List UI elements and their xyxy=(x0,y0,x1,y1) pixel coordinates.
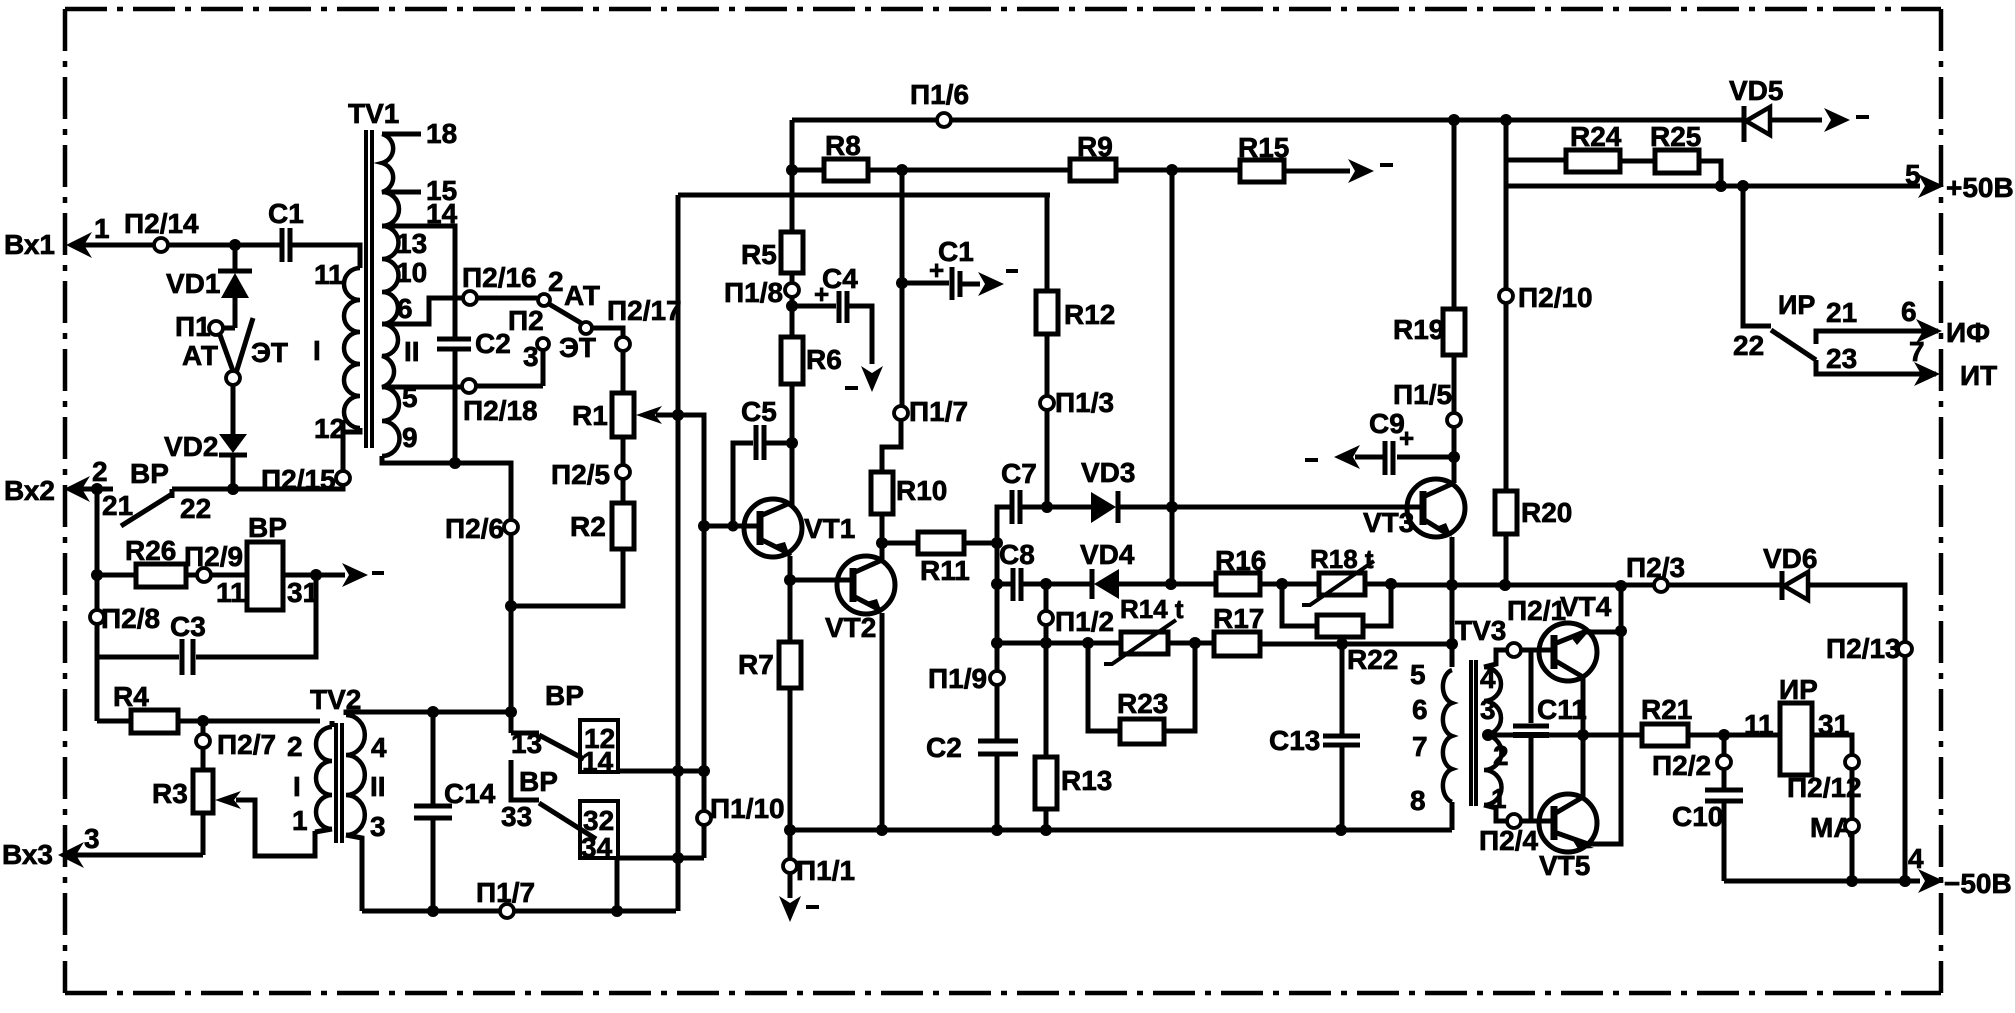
svg-text:3: 3 xyxy=(370,811,386,842)
svg-text:П1/1: П1/1 xyxy=(796,855,855,886)
svg-text:П1/6: П1/6 xyxy=(910,79,969,110)
vertical R9 junction to VD4 line xyxy=(1170,170,1175,584)
transformer TV3 xyxy=(1410,615,1583,830)
svg-text:7: 7 xyxy=(1909,336,1925,367)
svg-text:R24: R24 xyxy=(1570,121,1622,152)
diode VD2 xyxy=(164,385,247,489)
node П1/9 xyxy=(928,663,1004,694)
output ИФ pin 6 xyxy=(1901,296,1990,348)
svg-text:VD3: VD3 xyxy=(1081,457,1135,488)
switch П2 АТ/ЭТ contacts 2-3 xyxy=(508,266,623,386)
svg-text:4: 4 xyxy=(371,732,387,763)
TV2 secondary winding II xyxy=(346,712,511,715)
svg-text:12: 12 xyxy=(314,413,345,444)
svg-text:21: 21 xyxy=(1826,297,1857,328)
TV1 secondary winding II pins 5-9 xyxy=(382,324,400,456)
node П2/1 xyxy=(1507,595,1566,657)
capacitor C1 (middle) with minus arrow xyxy=(902,236,1018,300)
svg-text:П2/10: П2/10 xyxy=(1518,282,1593,313)
svg-text:VD1: VD1 xyxy=(166,268,220,299)
resistor R13 xyxy=(1035,757,1112,830)
wire ВР coil to minus arrow xyxy=(283,563,384,587)
node П1/8 xyxy=(724,277,799,337)
node МА xyxy=(1810,812,1859,843)
svg-text:22: 22 xyxy=(1733,330,1764,361)
junction Bx2 vertical xyxy=(91,483,103,495)
diode VD3 xyxy=(1047,457,1420,523)
switch АТ/ЭТ arm xyxy=(182,318,288,385)
svg-text:П1/5: П1/5 xyxy=(1393,379,1452,410)
svg-text:14: 14 xyxy=(582,746,614,777)
svg-text:11: 11 xyxy=(1744,709,1774,740)
vertical R8 junction to П1/7 with C1 branch xyxy=(896,170,908,406)
node П1 xyxy=(175,311,223,342)
capacitor C9 with minus arrow xyxy=(1305,408,1460,475)
node П2/6 xyxy=(445,513,518,733)
svg-text:R26: R26 xyxy=(125,535,176,566)
long feedback vertical xyxy=(678,195,1050,911)
junction R26 line xyxy=(91,569,103,581)
svg-text:13: 13 xyxy=(396,228,427,259)
svg-text:R13: R13 xyxy=(1061,765,1112,796)
svg-text:П2/12: П2/12 xyxy=(1787,772,1862,803)
node П2/2 xyxy=(1652,735,1731,790)
transistor VT3 xyxy=(1363,479,1465,667)
svg-text:11: 11 xyxy=(314,259,344,290)
svg-text:33: 33 xyxy=(501,801,532,832)
svg-text:3: 3 xyxy=(1480,694,1496,725)
svg-text:7: 7 xyxy=(1412,731,1428,762)
node П2/9 xyxy=(184,541,247,582)
svg-text:VT2: VT2 xyxy=(825,612,876,643)
svg-text:I: I xyxy=(293,771,301,802)
junction R8/R9 xyxy=(896,164,908,176)
svg-text:П1/7: П1/7 xyxy=(909,396,968,427)
node П1/1 with minus arrow down xyxy=(779,855,855,922)
resistor R26 xyxy=(97,535,197,587)
svg-text:R4: R4 xyxy=(113,681,149,712)
node П2/18 xyxy=(462,379,543,426)
svg-text:9: 9 xyxy=(402,422,418,453)
TV2 core xyxy=(336,723,342,843)
node П2/13 xyxy=(1826,633,1912,664)
svg-text:C13: C13 xyxy=(1269,725,1320,756)
resistor R23 xyxy=(1088,643,1195,744)
svg-text:5: 5 xyxy=(1905,159,1921,190)
svg-text:ВР: ВР xyxy=(130,458,169,489)
capacitor C14 xyxy=(414,706,496,911)
svg-text:C3: C3 xyxy=(170,611,206,642)
svg-text:R6: R6 xyxy=(806,344,842,375)
svg-text:18: 18 xyxy=(426,118,457,149)
svg-text:4: 4 xyxy=(1908,843,1924,874)
svg-text:I: I xyxy=(313,335,321,366)
resistors R24 R25 xyxy=(1506,121,1721,186)
node П2/14 xyxy=(124,208,199,252)
svg-text:R19: R19 xyxy=(1393,314,1444,345)
svg-text:R25: R25 xyxy=(1650,121,1701,152)
svg-text:ВР: ВР xyxy=(545,680,584,711)
thermistor R14 xyxy=(997,594,1214,664)
relay coil ВР xyxy=(216,512,318,610)
rail −50В pin 4 xyxy=(1724,843,2012,899)
svg-text:6: 6 xyxy=(1901,296,1917,327)
svg-text:Вх1: Вх1 xyxy=(4,229,55,260)
transistor VT4 xyxy=(1539,591,1621,735)
svg-text:C2: C2 xyxy=(475,328,511,359)
diode VD6 xyxy=(1763,543,1905,881)
svg-text:R2: R2 xyxy=(570,511,606,542)
svg-text:5: 5 xyxy=(1410,659,1426,690)
svg-text:VT1: VT1 xyxy=(804,513,855,544)
node П2/10 and resistor R20 xyxy=(1495,120,1593,585)
svg-text:ЭТ: ЭТ xyxy=(251,337,288,368)
svg-text:АТ: АТ xyxy=(564,280,600,311)
switch ВР contacts 13-12-14 xyxy=(511,680,618,777)
capacitor C8 xyxy=(997,539,1052,601)
node П2/4 xyxy=(1479,814,1554,856)
svg-text:П2/4: П2/4 xyxy=(1479,825,1538,856)
svg-text:ИР: ИР xyxy=(1779,674,1818,705)
resistor R8 xyxy=(786,120,1070,232)
svg-text:C8: C8 xyxy=(999,539,1035,570)
node П1/7 and R10 xyxy=(871,396,968,543)
svg-text:ВР: ВР xyxy=(248,512,287,543)
svg-text:II: II xyxy=(404,336,420,367)
svg-text:2: 2 xyxy=(548,266,564,297)
svg-text:C5: C5 xyxy=(741,396,777,427)
svg-text:VD2: VD2 xyxy=(164,431,218,462)
svg-text:П2/2: П2/2 xyxy=(1652,750,1711,781)
junction VT1 emitter / VT2 base xyxy=(784,574,796,586)
node П1/3 xyxy=(1040,387,1114,507)
left vertical Bx2 branch xyxy=(95,489,100,721)
potentiometer R1 xyxy=(572,393,704,858)
capacitor C7 xyxy=(997,458,1053,741)
svg-text:34: 34 xyxy=(581,832,613,863)
svg-text:VD4: VD4 xyxy=(1080,539,1135,570)
svg-text:ЭТ: ЭТ xyxy=(559,332,596,363)
svg-text:П2/18: П2/18 xyxy=(463,395,538,426)
TV3 secondary winding pins 4-3-2-1 xyxy=(1484,667,1502,805)
svg-text:C7: C7 xyxy=(1001,458,1037,489)
svg-text:23: 23 xyxy=(1826,343,1857,374)
output ИТ pin 7 xyxy=(1909,336,1997,391)
svg-text:П2/5: П2/5 xyxy=(551,459,610,490)
svg-text:R7: R7 xyxy=(738,649,774,680)
svg-text:П2/16: П2/16 xyxy=(462,262,537,293)
svg-text:ИФ: ИФ xyxy=(1946,317,1990,348)
svg-text:R3: R3 xyxy=(152,778,188,809)
TV3 core xyxy=(1471,660,1476,806)
capacitor C4 with minus arrow xyxy=(792,263,883,392)
node П1/5 xyxy=(1393,379,1461,427)
node П2/7 xyxy=(196,715,276,770)
TV1 secondary winding pins 18-15-14 xyxy=(382,134,399,226)
rail +50В pin 5 xyxy=(1506,159,2014,203)
svg-text:3: 3 xyxy=(84,823,100,854)
svg-text:VD5: VD5 xyxy=(1729,75,1783,106)
junction at Bx1/VD1 xyxy=(229,239,241,251)
svg-text:II: II xyxy=(370,771,386,802)
capacitor C11 xyxy=(1513,650,1587,821)
svg-text:14: 14 xyxy=(426,198,458,229)
thermistor R18 xyxy=(1302,544,1397,605)
svg-text:2: 2 xyxy=(1493,740,1509,771)
svg-text:6: 6 xyxy=(397,293,413,324)
capacitor C2 (middle) xyxy=(926,732,1018,830)
svg-text:R17: R17 xyxy=(1213,603,1264,634)
node П2/17 xyxy=(607,295,682,393)
rail bottom П1/1 xyxy=(784,824,1452,836)
svg-text:C1: C1 xyxy=(268,198,304,229)
resistor R6 xyxy=(781,337,842,505)
transistor VT5 xyxy=(1539,580,1627,881)
svg-text:П1/2: П1/2 xyxy=(1055,606,1114,637)
svg-text:2: 2 xyxy=(287,731,303,762)
resistor R9 xyxy=(1070,131,1240,181)
switch ИР contacts 22-21-23 xyxy=(1733,186,1938,374)
vertical П1/6 to VT3 collector with R19 xyxy=(1393,120,1465,483)
transistor VT1 xyxy=(698,499,855,580)
TV1 primary winding I xyxy=(292,245,360,268)
input Bx2 arrow pin 2 xyxy=(4,456,113,506)
svg-text:31: 31 xyxy=(287,577,318,608)
svg-text:R8: R8 xyxy=(825,130,861,161)
rail П2/3 xyxy=(1391,552,1782,592)
svg-text:R22: R22 xyxy=(1347,644,1398,675)
input Bx3 arrow pin 3 xyxy=(2,813,203,870)
resistor R16 xyxy=(1215,545,1319,595)
resistor R12 xyxy=(1036,195,1115,396)
resistor R2 xyxy=(511,503,634,606)
svg-text:П2: П2 xyxy=(508,305,544,336)
svg-text:+: + xyxy=(1399,423,1414,453)
switch ВР contacts 33-32-34 xyxy=(501,760,618,863)
diode VD5 with minus arrow xyxy=(1729,75,1869,142)
junction R11 / C7 vertical xyxy=(991,537,1003,549)
rail П1/6 top xyxy=(792,79,1742,127)
svg-text:VT4: VT4 xyxy=(1560,591,1612,622)
capacitor C13 xyxy=(1269,644,1360,830)
svg-text:10: 10 xyxy=(396,257,427,288)
svg-text:1: 1 xyxy=(94,213,110,244)
switch ВР (input) contacts 21-22 xyxy=(102,458,211,526)
svg-text:21: 21 xyxy=(102,490,133,521)
node П1/2 xyxy=(1039,584,1114,757)
node П2/15 xyxy=(261,464,350,495)
capacitor C5 xyxy=(728,396,799,532)
svg-text:C11: C11 xyxy=(1537,694,1587,725)
svg-text:C10: C10 xyxy=(1672,801,1723,832)
svg-text:2: 2 xyxy=(92,456,108,487)
resistor R4 xyxy=(97,681,320,733)
node П2/5 xyxy=(551,437,630,503)
svg-text:П2/15: П2/15 xyxy=(261,464,336,495)
capacitor C3 xyxy=(97,575,316,675)
svg-text:Вх2: Вх2 xyxy=(4,475,55,506)
capacitor C2 (TV1) xyxy=(437,328,511,469)
svg-text:П2/17: П2/17 xyxy=(607,295,682,326)
wire ВР box to П1/10 vertical xyxy=(617,765,710,911)
wire Bx2 to П2/15 corner xyxy=(172,420,343,489)
resistor R22 parallel to R18 xyxy=(1282,584,1398,675)
svg-text:П2/7: П2/7 xyxy=(217,729,276,760)
capacitor C10 xyxy=(1672,790,1743,881)
svg-text:П1/8: П1/8 xyxy=(724,277,783,308)
svg-text:Вх3: Вх3 xyxy=(2,839,53,870)
junction VD2 / Bx2 wire xyxy=(227,483,239,495)
resistor R17 xyxy=(1213,603,1458,656)
resistor R21 xyxy=(1583,694,1780,746)
transformer TV1 xyxy=(292,98,511,520)
svg-text:6: 6 xyxy=(1412,694,1428,725)
svg-text:R21: R21 xyxy=(1641,694,1692,725)
TV2 primary winding I xyxy=(330,721,335,727)
svg-text:R11: R11 xyxy=(920,555,970,586)
svg-text:1: 1 xyxy=(292,805,308,836)
svg-text:ИР: ИР xyxy=(1778,290,1815,320)
TV3 primary winding pins 5-6-7-8 xyxy=(1443,670,1452,802)
svg-text:R23: R23 xyxy=(1117,688,1168,719)
resistor R5 xyxy=(741,232,803,283)
input Bx1 arrow pin 1 xyxy=(4,213,235,260)
svg-text:ИТ: ИТ xyxy=(1960,360,1997,391)
transistor VT2 xyxy=(790,543,895,830)
node П1/10 xyxy=(697,793,785,825)
diode VD4 xyxy=(1046,539,1216,599)
capacitor C1 (input) xyxy=(235,198,360,268)
svg-text:АТ: АТ xyxy=(182,340,218,371)
svg-text:П2/8: П2/8 xyxy=(101,603,160,634)
svg-text:R12: R12 xyxy=(1064,299,1115,330)
svg-text:П1/10: П1/10 xyxy=(710,793,785,824)
svg-text:−50В: −50В xyxy=(1944,868,2012,899)
svg-text:R20: R20 xyxy=(1521,497,1572,528)
svg-text:П2/9: П2/9 xyxy=(184,541,243,572)
junction VT2 collector / R10 / R11 xyxy=(876,537,888,549)
resistor R15 with minus arrow xyxy=(1238,132,1393,183)
svg-text:П1/9: П1/9 xyxy=(928,663,987,694)
resistor R11 xyxy=(882,532,997,586)
node П2/12 xyxy=(1787,755,1862,803)
resistor R7 xyxy=(738,580,801,866)
svg-text:22: 22 xyxy=(180,493,211,524)
transformer TV2 xyxy=(287,684,511,911)
svg-text:VT5: VT5 xyxy=(1539,850,1590,881)
diode VD1 xyxy=(166,245,252,328)
svg-text:R5: R5 xyxy=(741,239,777,270)
svg-text:R10: R10 xyxy=(896,475,947,506)
svg-text:П1: П1 xyxy=(175,311,211,342)
bottom rail TV2 / П1/7 xyxy=(362,877,676,918)
node П2/8 xyxy=(90,603,160,634)
svg-text:ВР: ВР xyxy=(519,766,558,797)
svg-text:П1/3: П1/3 xyxy=(1055,387,1114,418)
svg-text:+50В: +50В xyxy=(1946,172,2014,203)
TV1 core xyxy=(366,130,372,448)
svg-text:8: 8 xyxy=(1410,785,1426,816)
svg-text:TV1: TV1 xyxy=(348,98,399,129)
svg-text:П2/13: П2/13 xyxy=(1826,633,1901,664)
svg-text:C2: C2 xyxy=(926,732,962,763)
relay coil ИР xyxy=(1744,674,1852,881)
svg-text:П2/14: П2/14 xyxy=(124,208,199,239)
TV1 secondary winding pins 13-10-6 xyxy=(382,226,399,324)
potentiometer R3 xyxy=(152,770,315,856)
svg-text:П2/1: П2/1 xyxy=(1507,595,1566,626)
svg-text:R1: R1 xyxy=(572,400,608,431)
svg-text:П2/6: П2/6 xyxy=(445,513,504,544)
svg-text:11: 11 xyxy=(216,577,246,608)
node П2/16 xyxy=(462,262,537,305)
svg-text:TV3: TV3 xyxy=(1455,615,1506,646)
